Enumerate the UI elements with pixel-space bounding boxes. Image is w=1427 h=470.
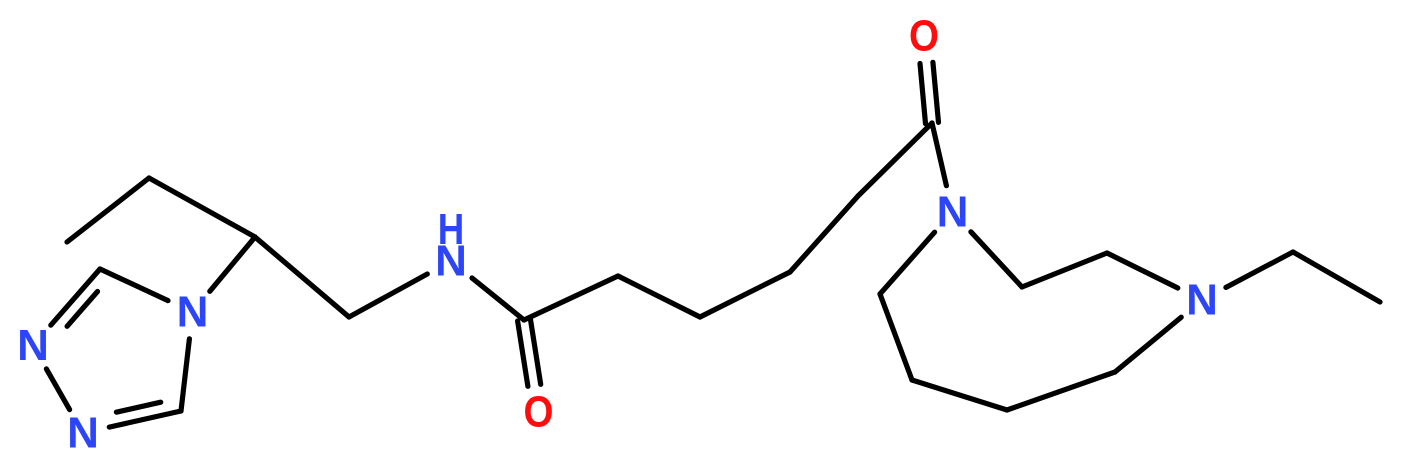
bond CH-CH2 (ethyl branch) xyxy=(149,178,255,237)
ring8 bond 6 xyxy=(912,380,1007,410)
bond C3-N4 xyxy=(181,339,189,411)
ring8 bond 3 xyxy=(1107,253,1178,288)
bond CH2-CH3 (ethyl) xyxy=(1293,252,1380,302)
bond N4-CH xyxy=(210,237,255,291)
ring8 bond 8 xyxy=(880,232,935,294)
ring8 bond 1 xyxy=(971,232,1022,287)
ring8 bond 2 xyxy=(1022,253,1107,287)
svg-text:O: O xyxy=(524,388,554,437)
chain bond 4 xyxy=(790,196,858,272)
bond C5=N1 (double) xyxy=(51,269,100,326)
bond CH2-CH3 xyxy=(67,178,149,242)
bond NH-C(=O) xyxy=(472,278,524,320)
ring8 bond 7 xyxy=(880,294,912,380)
chain bond 2 xyxy=(618,276,700,317)
chain bond 1 xyxy=(524,276,618,320)
bond CH-CH2 xyxy=(255,237,349,317)
bond CH2-NH xyxy=(349,274,427,317)
bond C(=O)-N ring xyxy=(932,123,946,186)
bond N4-C5 xyxy=(100,269,168,301)
bond N1-N2 xyxy=(46,369,69,410)
svg-text:N: N xyxy=(1186,276,1218,325)
bond C=O (left) xyxy=(518,319,541,386)
svg-text:H: H xyxy=(438,205,465,254)
bond N2=C3 (double) xyxy=(109,402,181,427)
ring8 bond 5 xyxy=(1007,372,1115,410)
svg-text:N: N xyxy=(177,288,209,337)
svg-text:N: N xyxy=(17,321,49,370)
bond C=O (right) xyxy=(920,62,939,123)
chain bond 3 xyxy=(700,272,790,317)
chain bond 5 xyxy=(858,123,932,196)
ring8 bond 4 xyxy=(1115,317,1181,372)
svg-text:N: N xyxy=(937,188,969,237)
bond N-CH2 (ethyl) xyxy=(1226,252,1293,287)
svg-text:N: N xyxy=(67,409,99,458)
svg-text:O: O xyxy=(909,12,939,61)
